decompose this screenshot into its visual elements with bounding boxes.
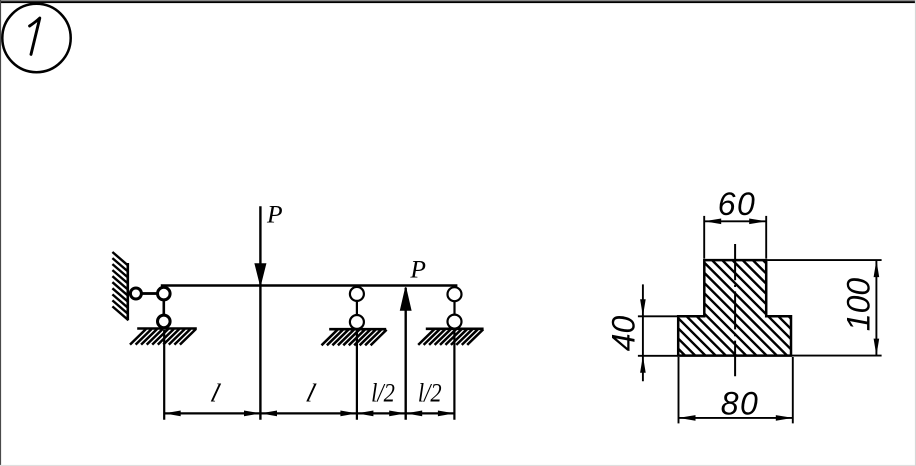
dim arrows at x=357 <box>340 411 357 417</box>
extension line under support C <box>453 330 455 420</box>
ground hatching support A <box>130 329 196 345</box>
beam dimension line <box>164 412 454 414</box>
svg-text:60: 60 <box>718 186 757 222</box>
force P2 line (up) <box>405 288 407 420</box>
dim 100 line <box>875 260 877 356</box>
pin circle on wall <box>130 288 141 299</box>
svg-text:P: P <box>409 255 426 284</box>
roller circle support A <box>158 315 171 328</box>
dim 100 arrows <box>874 260 880 277</box>
vertical link support A <box>163 300 166 316</box>
hinge circle support B <box>350 287 364 301</box>
cross-section hatching <box>579 260 916 390</box>
task number circle badge <box>2 4 70 72</box>
dim 40 extension line bottom <box>638 355 677 357</box>
force P1 line (down) <box>259 206 261 420</box>
force P2 arrowhead <box>400 287 411 310</box>
dim arrows at x=164 <box>164 411 181 417</box>
roller circle support B <box>350 315 364 329</box>
dim 80 arrows <box>679 415 696 421</box>
link bar wall-to-hinge <box>142 292 157 295</box>
force P1 arrowhead <box>255 264 266 286</box>
ground line support B <box>329 328 386 331</box>
dim 40 arrows (outside) <box>640 299 646 316</box>
border frame left line <box>0 0 1 466</box>
dim 60 extension lines <box>703 216 705 259</box>
svg-text:P: P <box>266 200 283 229</box>
border frame top black line <box>0 1 916 3</box>
task number digit 1 <box>30 18 40 54</box>
hinge circle support A <box>158 287 171 300</box>
ground line support A <box>137 327 197 330</box>
section centerline <box>734 244 736 376</box>
dim 100 extension line bottom <box>792 355 882 357</box>
dim arrows at x=260 <box>244 411 261 417</box>
svg-text:l/2: l/2 <box>418 379 442 408</box>
border frame bottom faint line <box>0 465 916 466</box>
wall hatching <box>112 252 128 320</box>
svg-text:80: 80 <box>721 386 760 422</box>
vertical link support C <box>453 301 455 315</box>
hinge circle support C <box>448 287 462 301</box>
svg-text:l/2: l/2 <box>371 379 395 408</box>
dim 80 extension lines <box>678 357 680 423</box>
extension line under support B <box>356 330 358 419</box>
cross-section outline <box>678 260 791 356</box>
dim 60 arrows <box>704 219 721 225</box>
ground hatching support B <box>322 330 387 346</box>
dim 40 line <box>642 284 644 381</box>
border frame top gray strip <box>0 0 916 1</box>
svg-text:100: 100 <box>841 278 877 332</box>
beam line <box>161 284 458 287</box>
extension line under support A <box>163 330 165 420</box>
dim 80 line <box>679 417 793 419</box>
ground line support C <box>426 327 484 330</box>
dim 40 extension line top <box>638 315 677 317</box>
vertical link support B <box>356 301 358 315</box>
border frame right faint line <box>915 0 916 466</box>
roller circle support C <box>448 315 462 329</box>
dim arrows at x=454 <box>438 411 455 417</box>
dim 100 extension line top <box>768 259 882 261</box>
ground hatching support C <box>418 329 483 345</box>
dim 60 line <box>704 220 766 222</box>
wall line of left support <box>127 263 130 320</box>
dim arrows at x=406 <box>389 411 406 417</box>
svg-text:l: l <box>208 378 224 407</box>
svg-text:l: l <box>303 378 319 407</box>
svg-text:40: 40 <box>606 316 642 352</box>
